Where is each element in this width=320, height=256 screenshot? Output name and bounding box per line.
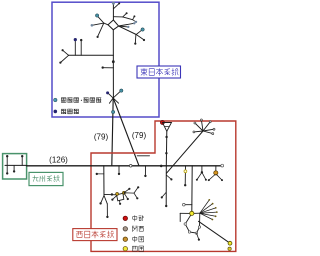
wire: starburst ray 6 [194,130,203,133]
node: spur end gray [135,21,137,23]
wire: bus drop tick mid [144,166,146,176]
wire: vertical feeder to yellow hub [191,166,193,214]
node: fork end upper [62,49,64,51]
loop: square ring [117,193,124,201]
node: right gray node [133,22,135,24]
node: spur end [133,15,135,17]
wire: stub left with node [97,173,104,175]
wire: kyushu up tick [21,156,23,165]
node: navy Shizuoka node [74,38,77,41]
node: teal prefecture node [141,28,144,31]
node: teal node on interconnect [111,110,114,113]
wire: east main trunk top [112,3,114,20]
wire: kyushu riser both ways [6,156,8,173]
node: gold node left [116,192,119,195]
node: trunk dot 2 [165,152,167,154]
wire: X arm down-left [109,98,113,103]
legend: west marker chubu [123,216,127,220]
wire: fan ray 5 [200,213,216,216]
wire: loop tick down [119,201,122,204]
node: tick end [118,173,120,175]
node: stub terminal [102,66,104,68]
wire: branch fork up-left [63,50,69,55]
wire: stub west of trunk [103,67,114,69]
svg-text:(79): (79) [132,131,147,140]
wire: trident left leg [101,196,104,204]
wire: junction to teal node [136,30,142,35]
node: fan tip 6 [212,219,214,221]
node: left leg end [99,202,101,204]
wire: hub stub to right gray node [119,23,135,26]
wire: orange leg left [209,175,215,181]
wire: west stub to hub [92,23,104,25]
node: ray tip 6 [193,131,195,133]
wire: trunk stub left [162,192,166,197]
node: pentagon ring 3 [195,232,197,234]
wire: spur up-right [133,17,135,20]
node: fan tip 1 [208,199,210,201]
node: teal node at X [120,89,123,92]
legend: east marker Gifu/Fukui [54,98,58,102]
wire: riser with dark node [80,40,82,55]
wire: hub west arm [180,212,192,214]
legend text: kansai [132,226,137,232]
wire: chubu trunk below bus [165,166,167,206]
legend: east marker Shizuoka [54,110,58,114]
wire: spur down-right [133,20,136,22]
node: drop end [134,43,136,45]
wire: branch continuing right [123,17,133,20]
node: stub end [170,178,172,180]
node: kyushu top node [6,155,8,157]
box: East Japan system boundary [52,2,159,117]
wire: kyushu bus [5,164,27,166]
label text: Higashi-Nihon-Keitou [141,68,148,75]
node: Chugoku orange node [214,171,218,175]
wire: yellow-ring feeder [184,166,186,185]
node: fan tip 4 [216,211,218,213]
wire: stub up-right from gold [124,189,129,193]
wire: fan ray 3 [200,208,216,213]
wire: hub diagonal to southeast junction [119,26,137,35]
wire: fork leg right [202,172,206,179]
wire: orange leg right [217,175,222,181]
wire: upper branch horizontal [113,16,122,18]
node: trunk end [165,205,167,207]
wire: K ray up [134,187,138,193]
wire: junction drop [134,35,137,44]
node: stub end [161,196,163,198]
wire: fan ray 6 [200,213,213,219]
wire: hub stub to blue-gray node [119,25,129,28]
node: ray tip 2 [194,122,196,124]
node: leg end [208,179,210,181]
wire: chubu trunk above bus [165,131,168,166]
wire: trunk stub right [166,175,171,179]
node: stub end [143,39,145,41]
label box: West Japan System [73,229,117,241]
node: kyushu up node [21,155,23,157]
node: stub end [127,198,129,200]
wire: K ray down [134,193,137,198]
node: kyushu bottom node [6,172,8,174]
wire: fork leg left [197,172,202,179]
interconnect: line to west bus (left) [112,98,113,166]
node: stub end [128,188,130,190]
node: pentagon ring 1 [184,223,186,225]
node: fan tip 3 [215,207,217,209]
box: West Japan system boundary (stepped) [91,121,236,251]
node: leg end [205,179,207,181]
node: bus end ring [221,164,224,167]
node: open circle on bus [129,165,132,168]
wire: starburst ray 1 [201,120,203,131]
label box: East Japan System [137,66,181,78]
node: ray tip 1 [200,119,202,121]
wire: branch to upper dot [123,13,127,17]
wire: teal feeder northwest [97,16,104,23]
loop: pentagon ring below hub [185,213,200,233]
legend: west marker shikoku [123,247,127,251]
node: stub end [111,199,113,201]
node: trunk top terminal [112,2,115,5]
wire: west vertical feeder at 103.8 [103,166,105,196]
node: chubu tick [165,126,169,128]
node: mid node [111,193,113,195]
wire: stub bar on 79 feeder [137,155,149,157]
node: blue-gray node [127,26,129,28]
legend text: chubu [133,215,137,221]
node: ray tip 4 [213,128,215,130]
wire: southwest diagonal [98,23,104,37]
legend text: Gifu/Fukui prefectures [61,98,66,103]
node: K tip up [137,186,139,188]
wire: top-right stub from trunk [113,3,119,8]
wire: pentagon tail [197,233,199,239]
wire: kyushu drop tick [13,165,15,171]
node: crossing X on trunk [108,93,119,103]
node: tick end [144,175,146,177]
legend text: chugoku [133,236,137,242]
loop: diamond ring of east hub [108,20,119,30]
node: K tip down [136,197,138,199]
wire: leg continues down [106,204,108,217]
legend text: Shizuoka prefecture [61,109,66,114]
label text: Kyushu-Keitou [33,175,39,181]
svg-text:(79): (79) [94,133,109,142]
legend: west marker kansai [123,227,127,231]
wire: junction into diamond left vertex [104,23,108,25]
node: leg end [106,216,108,218]
node: trunk dot 1 [165,136,167,138]
node: fork end lower [59,62,61,64]
node: tail end [198,239,200,241]
node: stub end [118,2,120,4]
wire: hub link to fan junction [192,212,200,214]
loop: chubu triangle [162,122,171,131]
node: ray tip 3 [209,121,211,123]
node: leg end [221,179,223,181]
box: Kyushu system boundary [3,154,27,179]
node: ray tip 5 [212,133,214,135]
node: bus junction dot left of trunk [160,165,163,168]
wire: west branch horizontal [69,54,114,56]
node: gold node right [122,191,125,194]
node: Shikoku yellow node [228,241,232,245]
wire: fan ray 1 [200,200,210,213]
node: west gray node [91,24,94,27]
wire: starburst ray 5 [203,131,213,134]
wire: west arm drop [179,213,181,221]
node: fan tip 5 [215,215,217,217]
node: fan tip 2 [212,203,214,205]
wire: starburst ray 3 [203,122,210,131]
wire: starburst long feeder to trunk [166,131,203,173]
node: feeder end [184,184,186,186]
wire: long feeder to Shikoku corner [199,221,231,243]
wire: trident right leg [104,196,107,204]
node: navy node at X [106,91,109,94]
node: southwest end [97,36,99,38]
label box: Kyushu System [29,172,63,185]
wire: stub down-right from gold [124,193,128,199]
wire: branch fork down-left [61,55,69,62]
wire: starburst ray 2 [195,123,203,131]
node: stub ring [183,203,186,206]
wire: bus drop tick [118,166,120,174]
wire: horizontal into loop [104,193,117,195]
wire: stub ring left [184,204,192,206]
legend: west marker chugoku [123,237,127,241]
wire: junction stub down-right [136,35,144,40]
node: tick end [119,203,121,205]
label text: Nishi-Nihon-Keitou [76,231,83,237]
node: pentagon ring 4 [198,226,200,228]
node: Shikoku olive node [228,247,231,250]
wire: main west bus (126 tie + west backbone) [27,165,222,167]
node: upper dot [126,12,128,14]
node: small yellow ring [184,170,187,173]
wire: starburst ray 4 [203,129,214,131]
wire: diagonal stub down-left [113,196,117,200]
svg-text:(126): (126) [49,155,68,164]
wire: link to K junction [124,192,134,194]
component: Chubu red node cluster [160,121,164,125]
wire: riser with navy node [74,40,76,55]
node: fork node [201,171,203,173]
node: kyushu drop node [13,170,15,172]
node: stub terminal [96,173,98,175]
node: northwest teal node [95,14,98,17]
wire: fan ray 4 [200,212,217,213]
node: dark node [80,39,82,41]
wire: main trunk mid [112,30,114,98]
interconnect: line to west bus (right) [113,98,139,166]
node: pentagon ring 2 [188,231,190,233]
wire: tick with fork at 202 [201,166,203,172]
legend text: shikoku [132,246,137,251]
wire: X arm to teal [113,91,121,98]
wire: orange node tick [215,166,217,172]
wire: fan ray 2 [200,204,213,214]
node: trunk junction dot [112,60,115,63]
node: leg end [196,179,198,181]
